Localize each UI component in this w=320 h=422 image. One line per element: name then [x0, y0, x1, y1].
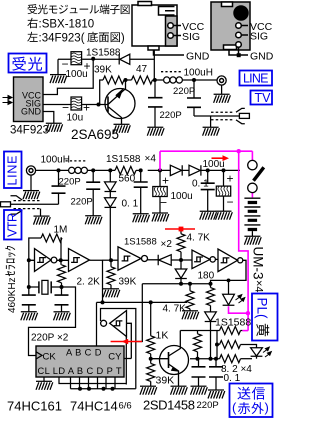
- diode 1S1588: [119, 54, 130, 65]
- capacitor 220P col B: [193, 80, 195, 116]
- ground: [21, 312, 38, 321]
- svg-text:CK: CK: [43, 352, 57, 363]
- wire GND: [229, 47, 248, 55]
- resistor 4.7K to ground: [189, 284, 191, 291]
- pin strip: [166, 16, 178, 46]
- top tab: [222, 2, 233, 7]
- ground: [140, 386, 157, 395]
- svg-text:39K: 39K: [119, 277, 137, 288]
- LINE vertical blue box: [4, 152, 22, 189]
- capacitor 10u electrolytic: [71, 97, 82, 110]
- IR lens dot: [234, 6, 248, 20]
- feedback wire over gate: [101, 309, 136, 389]
- wire VCC: [241, 25, 248, 27]
- svg-text:220P: 220P: [197, 400, 219, 411]
- svg-text:220P ×2: 220P ×2: [31, 333, 69, 344]
- capacitor 220P osc right: [61, 287, 63, 312]
- svg-text:1S1588: 1S1588: [106, 154, 141, 165]
- pin VCC: [236, 23, 242, 29]
- wire resonator to CK: [29, 287, 76, 356]
- capacitor 220P at LINE jack: [58, 170, 60, 204]
- svg-text:100u: 100u: [66, 69, 88, 80]
- wire SIG to base: [43, 104, 108, 106]
- emitter arrow: [115, 87, 124, 99]
- svg-text:VTR: VTR: [6, 213, 20, 237]
- capacitor 220P col x93: [92, 170, 94, 215]
- svg-text:1M: 1M: [54, 225, 68, 236]
- svg-text:4. 7K: 4. 7K: [187, 233, 211, 244]
- wire to VCC label: [173, 25, 181, 27]
- resistor 1K: [150, 302, 152, 335]
- wire to SIG label: [173, 35, 181, 37]
- resistor 8.2 a: [220, 327, 241, 335]
- load bus vertical: [125, 337, 127, 385]
- label 460KHz ceralock vertical: [5, 246, 18, 313]
- heading line2: [27, 18, 37, 28]
- ground: [200, 211, 217, 220]
- svg-text:220P: 220P: [173, 86, 195, 97]
- ground: [36, 381, 53, 390]
- diode detector pointing left: [158, 255, 171, 266]
- capacitor 0.1 col x216: [215, 359, 217, 390]
- resistor 39K to ground: [109, 258, 113, 262]
- junction: [227, 279, 231, 283]
- light arrows: [3, 96, 13, 105]
- capacitor 0.1 col x140.5: [140, 170, 142, 213]
- junction: [222, 168, 226, 172]
- top mounting tab: [138, 2, 152, 6]
- diode 1S1588 a: [170, 165, 182, 175]
- capacitor 220P osc left: [28, 260, 30, 312]
- red flow arrow c: [111, 339, 142, 345]
- ground: [216, 211, 233, 220]
- diode to AGC pointing down: [175, 260, 187, 284]
- ground: [103, 289, 120, 298]
- junction: [209, 282, 213, 286]
- wire jack to rail: [36, 169, 69, 171]
- wire U1b out to U1c in: [103, 259, 119, 261]
- junction: [57, 168, 61, 172]
- junction: [91, 168, 95, 172]
- junction: [102, 387, 106, 391]
- junction: [27, 258, 31, 262]
- svg-text::34F923(: :34F923(: [39, 32, 85, 44]
- capacitor 100u electrolytic: [71, 52, 82, 65]
- transistor Q2 2SD1458: [151, 331, 189, 387]
- junction: [111, 387, 115, 391]
- module body 34F923 bottom view: [132, 5, 177, 46]
- TV plug: [194, 108, 249, 127]
- ground: [50, 75, 67, 84]
- svg-text:1K: 1K: [156, 330, 169, 342]
- svg-text:4. 7K: 4. 7K: [163, 304, 187, 315]
- svg-text:A B C D: A B C D: [66, 348, 102, 358]
- svg-text:39K: 39K: [156, 375, 175, 387]
- junction: [179, 258, 183, 262]
- svg-text:+: +: [227, 172, 234, 186]
- svg-text:GND: GND: [250, 51, 274, 63]
- junction: [149, 300, 153, 304]
- svg-text:0. 1: 0. 1: [122, 199, 139, 210]
- svg-text:100u: 100u: [203, 159, 225, 170]
- LINE blue box: [240, 71, 273, 86]
- junction: [214, 357, 218, 361]
- capacitor 0.1 col x208: [207, 170, 209, 211]
- TV blue box: [251, 91, 273, 105]
- resistor 560: [115, 166, 136, 174]
- capacitor 100u electrolytic col x223.5: [223, 170, 225, 211]
- diode pair clamp col x110: [105, 170, 117, 260]
- LED PL yellow: [223, 280, 235, 305]
- svg-text:100uH: 100uH: [41, 155, 70, 166]
- CK clock wedge: [36, 352, 42, 359]
- junction: [149, 357, 153, 361]
- junction: [192, 78, 196, 82]
- wire VCC pin to filter: [43, 59, 93, 95]
- capacitor 220P col A: [154, 80, 156, 127]
- inverter U1d: [192, 250, 218, 269]
- junction: [59, 258, 63, 262]
- svg-text:×2: ×2: [161, 239, 173, 250]
- svg-text:+: +: [162, 174, 169, 188]
- ground: [23, 191, 40, 200]
- svg-text:2. 2K: 2. 2K: [77, 277, 101, 288]
- rail for 8.2 resistors: [216, 331, 218, 359]
- junction: [196, 357, 200, 361]
- rca jack LINE in: [26, 166, 35, 175]
- pin GND: [236, 42, 242, 48]
- svg-text:10u: 10u: [67, 113, 84, 124]
- VTR vertical blue box: [4, 210, 22, 240]
- gnd junction dot: [237, 53, 241, 57]
- wire U1b out down to sum node: [90, 260, 103, 302]
- ground: [214, 94, 231, 103]
- svg-text:×4: ×4: [145, 154, 157, 165]
- diode 1S1588 drive: [205, 312, 217, 359]
- inverter U1b: [69, 249, 90, 272]
- junction: [206, 168, 210, 172]
- svg-text:6/6: 6/6: [119, 401, 132, 412]
- resistor 180: [210, 284, 212, 288]
- collector top wire: [180, 330, 219, 332]
- red current arrow b: [165, 227, 195, 232]
- svg-text:CL LD A B C D P T: CL LD A B C D P T: [38, 366, 122, 376]
- svg-text:2SD1458: 2SD1458: [143, 398, 195, 413]
- junction base node: [97, 103, 101, 107]
- junction emitter node: [124, 78, 128, 82]
- ground: [203, 127, 220, 136]
- diode 1S1588 b: [189, 165, 201, 175]
- capacitor 100u electrolytic col x160: [159, 170, 161, 213]
- svg-text:TV: TV: [255, 91, 272, 105]
- emitter row wire: [190, 358, 220, 360]
- svg-text:CY: CY: [108, 352, 122, 363]
- svg-text:−: −: [160, 196, 167, 210]
- inverter U1e: [211, 249, 247, 284]
- ground: [54, 312, 71, 321]
- module body SBX-1810: [211, 2, 250, 50]
- junction: [27, 285, 31, 289]
- resistor 8.2 c: [220, 355, 241, 363]
- VTR output plug: [1, 196, 59, 216]
- resistor 1M feedback loop: [29, 238, 41, 260]
- ground: [46, 123, 63, 132]
- junction: [215, 343, 219, 347]
- junction: [60, 285, 64, 289]
- resistor 39K: [150, 359, 152, 364]
- resistor 2.2K: [60, 260, 62, 265]
- junction (battery wire): [246, 311, 250, 315]
- junction: [188, 282, 192, 286]
- svg-text:−: −: [227, 195, 234, 209]
- svg-text:220P: 220P: [71, 197, 93, 208]
- svg-text:): ): [121, 32, 125, 44]
- pin SIG: [236, 32, 242, 38]
- ground: [191, 386, 208, 395]
- svg-text:1S1588: 1S1588: [86, 48, 121, 59]
- pin CL to ground: [43, 377, 45, 381]
- inverter U1c: [118, 247, 158, 270]
- junction: [101, 300, 105, 304]
- wire sum node into counter pin D: [96, 302, 98, 346]
- svg-text:1S1588: 1S1588: [124, 237, 157, 248]
- ground: [133, 214, 150, 223]
- junction: [87, 387, 91, 391]
- ground: [171, 386, 188, 395]
- wire SIG: [241, 34, 248, 36]
- ground stem at filter: [57, 59, 59, 74]
- resistor 39K bias: [100, 80, 103, 105]
- ground: [114, 124, 131, 133]
- ground: [34, 216, 51, 225]
- svg-text:0. 1: 0. 1: [224, 373, 241, 384]
- svg-text:34F923: 34F923: [10, 125, 49, 137]
- pin SIG: [168, 33, 174, 39]
- svg-text:PL(: PL(: [255, 298, 270, 320]
- capacitor 0.1 col x198.5: [198, 359, 200, 387]
- junction: [209, 357, 213, 361]
- pin VCC: [168, 23, 174, 29]
- resistor 8.2 b: [217, 344, 220, 346]
- svg-text:100uH: 100uH: [184, 68, 213, 79]
- svg-text:SIG: SIG: [250, 31, 268, 43]
- svg-text:GND: GND: [186, 51, 210, 63]
- bottom tab: [224, 45, 237, 50]
- bottom mounting tab: [148, 46, 159, 50]
- ground: [208, 390, 225, 399]
- wire GND pin: [43, 112, 54, 124]
- junction: [108, 168, 112, 172]
- ceramic resonator 460KHz: [29, 286, 62, 288]
- ground: [244, 236, 261, 245]
- rca jack TV line out: [217, 76, 226, 85]
- svg-text:): ): [265, 400, 269, 415]
- junction (battery wire): [237, 149, 241, 153]
- wire to GND label: [154, 50, 185, 55]
- sum wire: [97, 301, 188, 303]
- inverter U1f pointing left: [101, 311, 132, 359]
- svg-text:LINE: LINE: [6, 156, 20, 186]
- svg-text:2SA695: 2SA695: [71, 127, 119, 142]
- svg-text:SIG: SIG: [182, 31, 200, 43]
- junction: [139, 168, 143, 172]
- svg-text:74HC14: 74HC14: [70, 399, 118, 414]
- pins ABCDPT bus: [71, 377, 116, 389]
- 送信(赤外) blue box: [230, 384, 273, 418]
- transistor Q1 2SA695: [105, 80, 135, 124]
- svg-text:+: +: [83, 101, 90, 115]
- supply wire y=59: [58, 50, 154, 80]
- LED IR transmit: [251, 348, 263, 357]
- svg-text:220P: 220P: [160, 110, 182, 121]
- svg-text:×4: ×4: [253, 280, 265, 293]
- inverter U1a: [29, 249, 69, 272]
- resistor 4.7K pullup: [180, 229, 182, 234]
- svg-text:220P: 220P: [59, 177, 81, 188]
- inductor 100uH: [164, 77, 183, 83]
- ground: [152, 213, 169, 222]
- junction: [158, 168, 162, 172]
- PL blue box: [252, 294, 278, 341]
- svg-text:(: (: [232, 400, 237, 415]
- svg-text:LINE: LINE: [243, 72, 269, 86]
- heading line1: [28, 4, 38, 14]
- svg-text:47: 47: [136, 64, 148, 75]
- svg-text:GND: GND: [21, 107, 42, 117]
- envelope wire: [142, 283, 210, 285]
- svg-text:39K: 39K: [94, 65, 112, 76]
- junction: [179, 282, 183, 286]
- resistor mid: [197, 331, 199, 334]
- svg-text:1S1588: 1S1588: [215, 317, 251, 329]
- ground: [147, 127, 164, 136]
- svg-text:560: 560: [119, 174, 136, 185]
- svg-text:460KHz: 460KHz: [7, 277, 18, 313]
- resistor 47: [126, 79, 155, 81]
- junction: [78, 387, 82, 391]
- pin LD bus: [59, 377, 126, 384]
- svg-text:UM-3: UM-3: [251, 247, 266, 280]
- red current arrow a: [212, 155, 230, 161]
- ground: [85, 216, 102, 225]
- svg-text:74HC161: 74HC161: [7, 399, 62, 414]
- junction: [91, 57, 95, 61]
- heading line3: [27, 32, 37, 42]
- svg-text:100u: 100u: [171, 191, 193, 202]
- svg-text::SBX-1810: :SBX-1810: [39, 18, 95, 30]
- ground: [182, 311, 199, 320]
